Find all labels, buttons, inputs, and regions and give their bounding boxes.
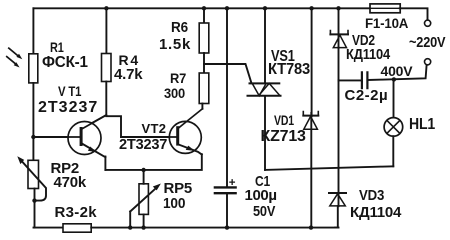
wire left rail top — [32, 8, 34, 54]
label R6 — [171, 20, 188, 35]
capacitor C1 — [215, 180, 236, 228]
wire top rail — [33, 8, 427, 19]
label R4 — [119, 53, 141, 67]
light arrow 1 — [9, 48, 22, 59]
label VD3 — [359, 188, 384, 203]
diode VD2 — [330, 31, 348, 48]
label VD2 — [352, 33, 375, 48]
label VT2 — [142, 122, 167, 135]
wire RP2 bottom lead — [34, 189, 36, 228]
wire R6 top lead — [203, 8, 205, 23]
node VD1 bottom junction — [309, 225, 313, 229]
node C1 top junction — [225, 6, 229, 10]
wire VT1 emitter down — [104, 157, 106, 170]
node RP2 wiper junction — [32, 198, 36, 202]
node RP5 top junction — [141, 168, 145, 172]
label R3 value — [55, 205, 97, 220]
wire bottom rail — [91, 227, 338, 229]
wire node to VT2 base — [106, 116, 176, 137]
label R1 value — [42, 55, 88, 71]
wire VS1 anode lead — [264, 8, 266, 83]
wire VD3 top lead — [338, 80, 340, 206]
label VT1 type — [38, 100, 98, 116]
node R6 top junction — [202, 6, 206, 10]
node base VT1 junction — [31, 135, 35, 139]
zener VD1 — [303, 112, 318, 130]
label HL1 — [409, 117, 435, 133]
label C1 value — [245, 188, 277, 203]
label VD3 type — [350, 205, 401, 220]
label R1 — [50, 40, 64, 54]
wire VS1 cathode down — [264, 97, 266, 170]
capacitor C2 — [362, 72, 368, 88]
label VS1 type — [268, 62, 310, 78]
wire collector VT1 to node — [82, 115, 107, 129]
node VD1 top junction — [309, 6, 313, 10]
fuse F1 — [370, 4, 400, 13]
node VS1 top junction — [263, 6, 267, 10]
label VD1 — [274, 113, 294, 127]
resistor R4 — [102, 54, 112, 82]
label RP5 value — [163, 196, 185, 211]
label RP5 — [164, 181, 193, 196]
wire VD2 to C2 node — [338, 48, 340, 81]
wire VS1 to HL1 — [265, 166, 393, 170]
label VT2 type — [119, 137, 167, 152]
wire C2 rail — [339, 65, 427, 80]
transistor VT1 — [33, 115, 106, 157]
triac VS1 — [248, 83, 281, 95]
wire VD2 top lead — [338, 8, 340, 48]
label VT1 — [58, 85, 81, 99]
wire HL1 top lead — [393, 79, 395, 117]
resistor R3 — [63, 224, 91, 232]
resistor R6 — [199, 23, 209, 53]
potentiometer RP2 — [17, 156, 46, 200]
label VD1 type — [261, 129, 306, 145]
wire HL1 bottom lead — [392, 136, 394, 166]
terminal lower ~220V — [425, 59, 431, 65]
node RP5 bottom lead — [141, 225, 145, 229]
label R4 value — [114, 67, 142, 82]
wire bottom rail left — [34, 227, 64, 229]
wire R7 bottom lead — [201, 104, 203, 109]
terminal upper ~220V — [425, 20, 431, 26]
label C1 voltage — [253, 204, 275, 219]
wire VD1 top lead — [311, 8, 313, 116]
node R4 top junction — [104, 6, 108, 10]
node HL1 top junction — [392, 77, 396, 81]
wire R4 top lead — [105, 8, 107, 53]
label C2 voltage — [381, 64, 413, 78]
photoresistor R1 — [29, 54, 38, 83]
label C2 value — [345, 88, 389, 103]
wire left rail middle — [32, 83, 34, 160]
wire R6-R7 link — [203, 53, 205, 73]
resistor R7 — [199, 73, 209, 104]
node C1 bottom junction — [225, 225, 229, 229]
wire VD1 bottom lead — [310, 113, 312, 228]
wire VD3 bottom lead — [335, 206, 338, 228]
potentiometer RP5 — [130, 170, 161, 228]
label VS1 — [271, 49, 295, 65]
node RP5 wiper bottom — [128, 225, 132, 229]
diode VD3 — [329, 193, 346, 206]
lamp HL1 — [384, 118, 403, 137]
label mains voltage — [409, 35, 445, 50]
label RP2 — [51, 161, 80, 176]
wire gate VS1 — [204, 64, 252, 83]
node VD2 top junction — [336, 6, 340, 10]
wire C1 top lead — [226, 8, 228, 186]
label R6 value — [159, 37, 191, 52]
label R7 value — [164, 86, 185, 100]
light arrow 2 — [7, 57, 20, 68]
wire R4 bottom lead — [105, 82, 107, 116]
wire emitter rail — [105, 154, 201, 170]
label F1 — [365, 16, 408, 30]
label VD2 type — [346, 47, 390, 62]
label R7 — [170, 71, 186, 85]
label RP2 value — [54, 175, 87, 190]
transistor VT2 — [121, 109, 202, 155]
wire VT1 base — [33, 136, 79, 138]
label C1 — [255, 174, 270, 189]
